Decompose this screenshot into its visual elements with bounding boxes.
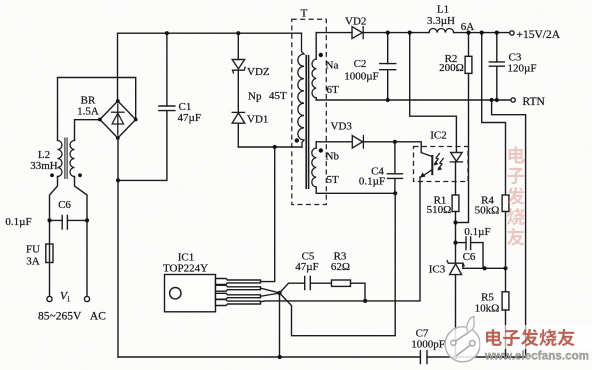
winding Na secondary [312, 33, 339, 100]
svg-text:+15V/2A: +15V/2A [517, 29, 561, 41]
pin 4 blade [216, 300, 261, 306]
watermark text 电子发烧友 [486, 329, 575, 346]
svg-text:47µF: 47µF [295, 261, 318, 273]
svg-text:C2: C2 [354, 58, 367, 70]
label T [301, 8, 308, 20]
svg-text:VDZ: VDZ [247, 66, 270, 78]
pin 3 blade [216, 293, 261, 299]
wire pin4 control line to R3 node and IC2 emitter [261, 182, 421, 303]
svg-text:120µF: 120µF [508, 63, 537, 75]
svg-text:5T: 5T [327, 174, 340, 186]
resistor R5 10k [475, 268, 509, 357]
wire secondary return rail to RTN [316, 99, 510, 101]
svg-text:1000pF: 1000pF [411, 339, 445, 351]
diode VD3 [331, 121, 364, 149]
diode VD1 [232, 112, 268, 147]
label Vi [60, 291, 71, 304]
wire bottom rail left section [118, 356, 420, 358]
winding Np primary [295, 33, 304, 147]
wire source node to Nb return [280, 193, 396, 335]
node source-control junction [277, 291, 281, 295]
svg-text:Nb: Nb [326, 151, 340, 163]
pin 2 blade [216, 285, 261, 291]
svg-text:85~265V AC: 85~265V AC [38, 311, 106, 323]
wire top DC+ rail from bridge to primary [118, 33, 302, 101]
wire rail L1 to +15V terminal [454, 32, 510, 34]
winding Nb secondary [312, 142, 340, 194]
node C1 top junction [165, 31, 169, 35]
node IC3 anode bottom rail junction [453, 355, 457, 359]
capacitor C3 120uF [489, 30, 536, 102]
wire VD3 cathode to IC2 [363, 142, 421, 153]
svg-text:3.3µH: 3.3µH [427, 15, 455, 27]
svg-text:RTN: RTN [523, 96, 546, 108]
resistor R2 200 ohm [439, 30, 472, 222]
wire R4 feed from +15 rail [480, 30, 506, 195]
terminal +15V/2A [510, 29, 561, 41]
IC IC1 TOP224Y package [163, 252, 216, 312]
svg-text:3A: 3A [26, 256, 40, 268]
bridge rectifier BR [77, 95, 137, 140]
pin 1 drain blade [216, 279, 261, 285]
svg-text:6T: 6T [327, 84, 340, 96]
wire bridge negative to bottom rail [117, 138, 119, 357]
optocoupler IC2 [414, 130, 469, 183]
wire L2 left bottom to input left [50, 177, 58, 297]
label Np 45T [248, 90, 287, 103]
wire IC3 ref line to divider [463, 264, 508, 271]
svg-text:TOP224Y: TOP224Y [163, 263, 208, 275]
svg-text:45T: 45T [269, 90, 287, 102]
wire L2 right bottom to input right [75, 177, 88, 297]
inductor L1 3.3uH [427, 4, 474, 34]
wire Nb return rail [316, 191, 397, 195]
wire Nb rectified line VD3 to optocoupler collector [316, 141, 352, 143]
terminal Vi left [47, 296, 52, 301]
svg-text:L1: L1 [437, 4, 449, 16]
svg-text:IC3: IC3 [429, 264, 446, 276]
diode VD2 [345, 16, 366, 39]
transformer core [306, 55, 308, 189]
svg-text:200Ω: 200Ω [439, 62, 464, 74]
wire pin3 to source node [261, 293, 280, 296]
watermark logo elecfans [445, 317, 480, 362]
node drain junction on primary bottom rail [273, 145, 277, 149]
watermark text www.elecfans.com [484, 351, 589, 363]
capacitor C6 secondary 0.1uF [456, 226, 491, 268]
resistor R4 50k [475, 195, 509, 269]
svg-text:0.1µF: 0.1µF [464, 226, 490, 238]
svg-text:1000µF: 1000µF [344, 71, 378, 83]
inductor L2 common-mode choke [30, 138, 82, 180]
wire bottom rail right section and riser to RTN [427, 100, 526, 357]
svg-text:Np: Np [248, 91, 262, 103]
fuse FU 3A [26, 244, 53, 268]
svg-text:C6: C6 [58, 199, 71, 211]
capacitor C5 47uF [280, 251, 332, 294]
svg-text:0.1µF: 0.1µF [359, 176, 385, 188]
svg-text:FU: FU [26, 244, 40, 256]
terminal RTN [511, 96, 546, 108]
watermark white halo [480, 325, 592, 349]
capacitor C2 1000uF [344, 30, 395, 102]
resistor R1 510 ohm [427, 195, 459, 263]
node R5 bottom rail junction [503, 355, 507, 359]
label 85~265V AC [38, 311, 106, 323]
svg-text:VD2: VD2 [345, 16, 366, 28]
svg-text:33mH: 33mH [30, 160, 58, 172]
svg-text:510Ω: 510Ω [427, 204, 452, 216]
wire LED feed from +15 rail [408, 30, 457, 152]
wire drain riser to IC1 pin1 [261, 147, 275, 282]
transformer T dashed box [292, 19, 327, 204]
svg-text:Na: Na [326, 60, 339, 72]
watermark vertical red text [507, 146, 525, 245]
svg-text:50kΩ: 50kΩ [475, 205, 500, 217]
svg-text:62Ω: 62Ω [331, 261, 350, 273]
shunt regulator IC3 [429, 261, 464, 276]
wire IC3 anode down [455, 275, 457, 357]
capacitor C7 1000pF [411, 328, 445, 364]
wire rail VD2 to L1 [363, 32, 429, 34]
wire primary bottom rail [238, 146, 302, 148]
svg-text:C6: C6 [463, 251, 476, 263]
wire bridge AC right corner to L2 left winding [58, 78, 136, 141]
svg-text:1.5A: 1.5A [77, 106, 99, 118]
wire pin2 to source node [261, 288, 280, 293]
svg-text:10kΩ: 10kΩ [475, 303, 500, 315]
wire source node to bottom rail [278, 293, 282, 359]
svg-text:VD1: VD1 [247, 114, 268, 126]
node VDZ branch top junction [236, 31, 240, 35]
capacitor C1 47uF [116, 33, 201, 182]
svg-text:T: T [301, 8, 308, 20]
zener VDZ [232, 33, 270, 112]
svg-text:IC2: IC2 [430, 130, 447, 142]
terminal Vi right [84, 296, 89, 301]
resistor R3 62 ohm [331, 251, 365, 301]
svg-text:www.elecfans.com: www.elecfans.com [484, 351, 589, 363]
wire secondary top rail Na to +15V terminal [316, 32, 352, 34]
wire LED cathode to R1 [455, 162, 457, 195]
svg-text:VD3: VD3 [331, 121, 353, 133]
svg-text:0.1µF: 0.1µF [5, 216, 31, 228]
node RTN riser junction [490, 98, 494, 102]
capacitor C4 0.1uF [359, 140, 403, 194]
capacitor C6 input 0.1uF [5, 199, 89, 229]
wire bridge AC left corner to L2 right winding [75, 120, 101, 140]
svg-text:47µF: 47µF [178, 112, 201, 124]
